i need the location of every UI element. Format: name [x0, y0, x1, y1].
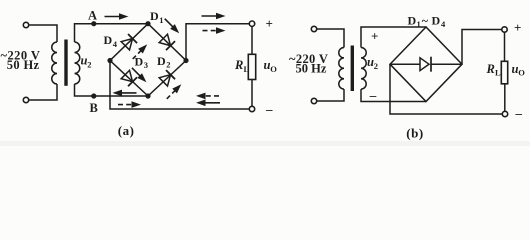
svg-text:D: D [157, 54, 166, 68]
arrow minus rail dashed left [196, 93, 219, 100]
svg-text:A: A [88, 8, 97, 22]
transformer secondary winding u2 (a) [75, 42, 80, 84]
wire primary bottom (b) [317, 89, 344, 101]
arrow plus rail dashed [203, 27, 226, 34]
svg-text:L: L [495, 68, 501, 78]
svg-text:–: – [369, 88, 377, 103]
arrow current D3 solid [130, 65, 149, 84]
svg-text:4: 4 [441, 19, 446, 29]
junction bottom vertex (a) [145, 93, 150, 98]
arrow B wire solid left [113, 90, 137, 97]
wire secondary bottom to node B (a) [75, 84, 149, 96]
node B [91, 93, 96, 98]
arrow current D2 dashed [164, 82, 183, 101]
wire load top (b) [504, 32, 506, 61]
svg-text:–: – [265, 101, 273, 116]
svg-text:2: 2 [374, 61, 378, 71]
junction left vertex (a) [107, 58, 112, 63]
arrow current A wire solid [105, 13, 129, 20]
junction top vertex (a) [145, 21, 150, 26]
terminal minus (b) [502, 111, 507, 116]
transformer core (a) [64, 40, 67, 86]
svg-text:D: D [135, 54, 144, 68]
svg-text:D: D [104, 33, 113, 47]
wire primary top (b) [317, 29, 344, 48]
wire minus rail (b) [390, 64, 502, 114]
arrow B wire dashed right [118, 101, 141, 108]
svg-text:B: B [90, 101, 98, 115]
wire load bottom (b) [504, 84, 506, 112]
svg-text:50 Hz: 50 Hz [7, 58, 40, 72]
svg-text:–: – [515, 105, 523, 120]
wire load bottom (a) [251, 80, 253, 107]
terminal: primary bottom (a) [23, 97, 28, 102]
svg-text:D: D [408, 13, 417, 27]
bridge internal diode (b) [390, 63, 420, 65]
diode D2 [159, 70, 175, 86]
transformer core (b) [351, 46, 354, 92]
svg-text:3: 3 [144, 60, 148, 70]
svg-text:+: + [266, 16, 273, 31]
terminal: primary bottom (b) [311, 98, 316, 103]
bridge diamond wires (a) [110, 24, 186, 96]
diode D4 [121, 34, 137, 50]
transformer T primary winding (a) [52, 42, 57, 84]
svg-text:O: O [518, 67, 525, 77]
svg-text:L: L [244, 64, 250, 74]
svg-text:(b): (b) [406, 125, 423, 140]
svg-text:2: 2 [166, 59, 170, 69]
svg-text:R: R [486, 62, 495, 76]
svg-text:2: 2 [87, 60, 91, 70]
svg-text:D: D [432, 13, 441, 27]
svg-text:(a): (a) [118, 123, 135, 138]
transformer T primary winding (b) [339, 48, 344, 90]
node A [91, 21, 96, 26]
wire secondary plus to bridge top (b) [361, 27, 426, 48]
terminal: primary top (b) [311, 26, 316, 31]
bridge stack D1~D4 diamond (b) [390, 27, 462, 102]
diode D3 [121, 70, 137, 86]
svg-text:1: 1 [159, 15, 163, 25]
transformer secondary winding u2 (b) [361, 48, 366, 90]
wire primary bottom (a) [29, 84, 57, 100]
resistor RL (a) [248, 54, 255, 79]
wire primary top (a) [29, 25, 57, 42]
arrow minus rail solid left [196, 100, 220, 107]
svg-text:D: D [150, 9, 159, 23]
wire secondary minus to bridge bottom (b) [361, 89, 426, 101]
terminal: primary top (a) [23, 22, 28, 27]
wire load top (a) [251, 26, 253, 54]
svg-text:4: 4 [113, 39, 118, 49]
diode D1 [159, 34, 175, 50]
svg-text:O: O [270, 64, 277, 74]
arrow current D4 dashed [130, 42, 149, 61]
terminal plus (b) [502, 27, 507, 32]
terminal plus (a) [249, 21, 254, 26]
wire plus rail (b) [462, 30, 502, 65]
junction right vertex (a) [183, 58, 188, 63]
svg-text:+: + [371, 29, 378, 44]
svg-text:50 Hz: 50 Hz [296, 61, 327, 75]
background strip [0, 141, 530, 146]
terminal minus (a) [249, 106, 254, 111]
arrow current D1 solid [162, 16, 181, 35]
svg-text:~: ~ [422, 13, 429, 27]
svg-text:R: R [234, 58, 243, 72]
wire minus rail (a) [110, 61, 249, 110]
wire secondary top to node A (a) [75, 24, 149, 42]
svg-text:+: + [514, 20, 521, 35]
resistor RL (b) [501, 61, 507, 84]
arrow plus rail solid [202, 13, 226, 20]
wire plus rail (a) [186, 24, 249, 61]
svg-text:1: 1 [417, 19, 421, 29]
